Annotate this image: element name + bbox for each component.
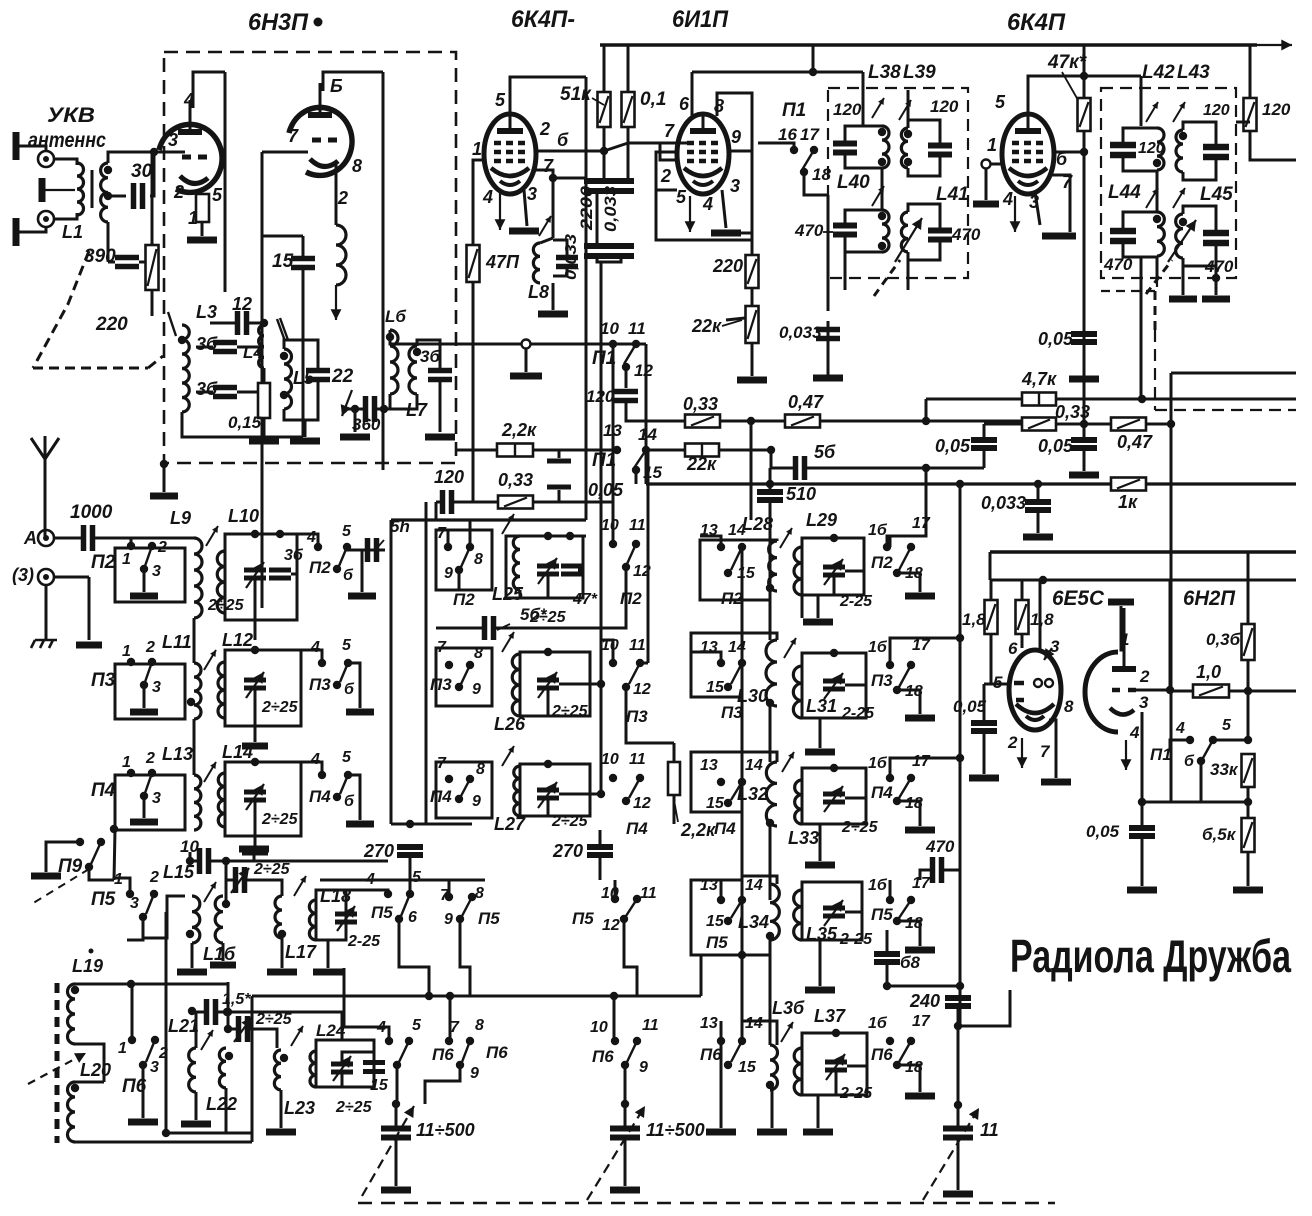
- dot L28 bottom: [766, 584, 774, 592]
- wire cap2-25a right: [245, 880, 282, 896]
- svg-text:L1: L1: [62, 222, 83, 242]
- trimmer arrow L23: [291, 1026, 303, 1046]
- ground L18: [313, 969, 343, 976]
- ground 6K4P2 cathode: [1042, 233, 1076, 240]
- box P4 deck3 unit: [436, 762, 492, 818]
- wire L33 box right: [845, 768, 866, 798]
- wire 6K4P2 pin7 box: [1048, 175, 1070, 232]
- wire L2 tap to cap30: [108, 195, 126, 198]
- svg-text:2: 2: [149, 869, 159, 886]
- top supply bus: [600, 43, 1257, 47]
- svg-text:9: 9: [470, 1065, 479, 1082]
- svg-text:1: 1: [987, 135, 997, 155]
- ground varcap b: [610, 1187, 640, 1194]
- wire earth stem: [45, 585, 48, 640]
- capacitor 22: [306, 371, 330, 380]
- wire cap120P1 down: [626, 401, 646, 421]
- coil L28: [769, 541, 777, 591]
- box P2 deck3 unit: [436, 530, 492, 590]
- box switch P3 deck1: [115, 664, 185, 719]
- wire L34 box bottom to L36: [742, 954, 770, 957]
- svg-text:120: 120: [1262, 100, 1291, 119]
- resistor 0.47 second: [1111, 418, 1146, 431]
- dot L23 top: [280, 1054, 288, 1062]
- arrow 6E5C cathode: [1017, 738, 1028, 768]
- switch P1b contact 15: [632, 466, 640, 474]
- wire L2 top to grid line: [108, 152, 185, 163]
- wire 0.033af stem: [1037, 484, 1040, 501]
- wire L4 bottom down: [263, 368, 266, 412]
- capacitor 120 L38: [833, 144, 857, 153]
- dot L45 bottom edge: [1212, 274, 1220, 282]
- svg-text:17: 17: [800, 125, 820, 144]
- capacitor 0.05 6E5C: [971, 723, 997, 731]
- svg-text:11: 11: [640, 885, 657, 902]
- wire 56 right: [805, 467, 926, 470]
- wire cap30 up to grid line: [150, 152, 154, 196]
- wire AVC vertical x601: [600, 262, 603, 640]
- resistor 220 vertical: [746, 255, 759, 288]
- wire P6d5-14 up: [741, 955, 744, 1041]
- wire L44 bottom down: [1156, 257, 1159, 278]
- wire R1.8a bottom: [990, 634, 993, 684]
- tube 6K4P first: [484, 114, 536, 194]
- wire P6d2-6 down: [396, 1065, 399, 1104]
- capacitor 120 L43: [1203, 147, 1229, 157]
- coil L36: [770, 1045, 778, 1090]
- trimmer arrow L27: [502, 746, 514, 766]
- wire L33 box top: [802, 768, 866, 780]
- svg-text:L41: L41: [936, 184, 969, 205]
- wire P2d4 down to L25: [530, 590, 626, 628]
- switch P2d4 contact 12: [622, 563, 630, 571]
- switch P4d5 arm: [731, 782, 742, 800]
- tube 6K4P second: [1002, 114, 1054, 194]
- wire caps join bottom: [597, 256, 621, 262]
- switch P5d4 contact 10: [611, 895, 619, 903]
- wire P4d2-4 up: [301, 762, 322, 775]
- ground 6E5C: [1041, 779, 1071, 786]
- wire P5d2-6 jog: [399, 919, 429, 996]
- svg-text:4: 4: [306, 529, 316, 546]
- wire L23 bottom: [280, 1090, 283, 1128]
- wire 6K4P1 pin6 right: [536, 150, 604, 153]
- switch P6d4 contact 11: [633, 1037, 641, 1045]
- svg-text:L43: L43: [1177, 62, 1210, 83]
- wire L45 box top: [1183, 206, 1216, 233]
- UKV lower lead: [16, 226, 46, 232]
- switch P2d6 arm: [899, 547, 911, 570]
- ground L33: [805, 862, 835, 869]
- wire 6I1P pin6 up: [691, 72, 694, 116]
- switch P4d2 contact 4: [318, 771, 326, 779]
- svg-text:9: 9: [472, 681, 481, 698]
- wire R0.36 mid: [1247, 660, 1250, 740]
- svg-text:L42: L42: [1142, 62, 1175, 83]
- ground terminal3: [76, 642, 102, 649]
- ground P2 deck1: [130, 593, 158, 600]
- wire 1.5 line to L24: [328, 1012, 342, 1040]
- svg-text:0,33: 0,33: [1055, 402, 1090, 422]
- wire 6N2P grid right: [1136, 689, 1170, 692]
- wire 0.05 6E5C down: [983, 731, 986, 774]
- junction 0.33 third right: [1080, 420, 1088, 428]
- wire L43 box bottom: [1183, 157, 1216, 180]
- svg-text:2÷25: 2÷25: [255, 1011, 293, 1028]
- switch P5d5 contact 15: [724, 917, 732, 925]
- wire L38 box bottom: [845, 153, 882, 168]
- wire 0.05r1 top stem: [983, 424, 986, 440]
- resistor 1.8 a: [985, 600, 998, 634]
- junction 2-25 line corner: [224, 1025, 232, 1033]
- coil L17: [275, 896, 282, 938]
- wire grid B from below: [261, 152, 264, 608]
- svg-text:2: 2: [145, 639, 155, 656]
- svg-text:30: 30: [131, 161, 153, 182]
- wire AVC into P3 region: [601, 640, 613, 663]
- svg-text:б: б: [557, 130, 569, 150]
- ground L23: [266, 1129, 296, 1136]
- resistor 0.1: [622, 92, 635, 127]
- svg-text:1,8: 1,8: [962, 610, 986, 629]
- svg-text:14: 14: [728, 522, 746, 539]
- svg-text:11: 11: [629, 751, 646, 768]
- wire L16 gnd bar: [210, 962, 236, 969]
- wire 22kv down: [751, 343, 754, 376]
- coil L32: [766, 762, 777, 826]
- dot L40 top: [878, 212, 886, 220]
- wire UKV upper to L1: [54, 159, 77, 165]
- switch P2d2 arm: [339, 547, 347, 566]
- capacitor 3b lower: [213, 388, 237, 397]
- box P4 deck5 unit: [691, 752, 742, 812]
- junction left column: [110, 825, 118, 833]
- junction bus x960 c: [956, 982, 964, 990]
- wire L41 box top: [908, 204, 940, 230]
- switch P5d4 arm: [626, 899, 637, 916]
- svg-text:14: 14: [745, 757, 763, 774]
- box P3 deck1: [115, 664, 185, 719]
- ground P3 deck2: [346, 709, 374, 716]
- wire grid entry: [154, 151, 178, 154]
- svg-text:L3: L3: [196, 302, 217, 322]
- svg-text:2÷25: 2÷25: [261, 811, 299, 828]
- wire 6I1P lower box: [656, 190, 752, 240]
- svg-text:51к: 51к: [560, 84, 592, 105]
- wire 0.033 stem: [827, 290, 830, 311]
- svg-text:3: 3: [130, 895, 139, 912]
- trimmer arrow L38: [872, 98, 884, 118]
- wire L38 box top: [845, 126, 882, 143]
- coil L5: [284, 349, 292, 409]
- box L33 unit: [802, 768, 866, 824]
- capacitor 0.05 plate bottom: [547, 484, 571, 489]
- svg-text:L22: L22: [206, 1094, 237, 1114]
- switch P5d3 arm: [462, 897, 472, 916]
- svg-text:6Н2П: 6Н2П: [1183, 587, 1236, 610]
- switch P4d5 contact 13: [717, 778, 725, 786]
- wire L31 bottom: [802, 718, 820, 748]
- wire L29 box top: [802, 538, 864, 547]
- svg-text:L23: L23: [284, 1098, 315, 1118]
- svg-text:антеннс: антеннс: [28, 129, 106, 152]
- svg-text:0,15: 0,15: [228, 413, 262, 432]
- wire L45 cap down: [1215, 266, 1218, 295]
- svg-text:8: 8: [474, 551, 483, 568]
- wire L8 bottom down: [552, 283, 555, 310]
- wire 56star left: [436, 627, 484, 630]
- wire L21 top: [195, 1012, 198, 1048]
- wire L42 box top: [1123, 128, 1157, 145]
- variable capacitor 11-500 c: [943, 1129, 973, 1138]
- capacitor 0.05 right1: [971, 440, 997, 448]
- dashed box L38-L41: [828, 88, 968, 278]
- wire UKV lower to L1: [54, 213, 77, 219]
- wire L26 bottom: [520, 688, 548, 716]
- wire y880 long: [320, 879, 485, 882]
- ground 6K4P1 cathode: [509, 228, 539, 235]
- wire cap390 left: [108, 261, 115, 264]
- switch P5d1 contact 3: [139, 913, 147, 921]
- wire R1.0 left: [1170, 690, 1193, 693]
- svg-text:2: 2: [539, 119, 550, 139]
- switch P2d1 arm: [145, 546, 152, 566]
- switch P1b arm: [634, 450, 646, 468]
- wire R220 bottom: [151, 290, 154, 316]
- wire L44 box top: [1123, 212, 1157, 231]
- ground P4 deck1: [130, 819, 158, 826]
- wire 0.05 6N2P stem: [1141, 802, 1144, 827]
- UKV terminal upper: [38, 151, 54, 167]
- cap trimmer L29: [823, 567, 845, 575]
- switch P4d1 arm: [145, 773, 152, 793]
- trimmer arrow L26: [502, 632, 514, 652]
- switch P5d6 contact 18: [893, 917, 901, 925]
- switch P2d2 contact 6: [333, 565, 341, 573]
- switch P1a contact 12: [622, 363, 630, 371]
- switch P2d3 arm: [461, 547, 470, 567]
- switch P6d5 contact 13: [717, 1037, 725, 1045]
- box L10 unit: [225, 534, 297, 620]
- wire 68 top: [886, 930, 889, 954]
- svg-text:510: 510: [786, 484, 816, 504]
- coil L2: [101, 163, 108, 222]
- switch P2d4 arm: [627, 544, 636, 564]
- box L12 unit: [225, 650, 301, 726]
- svg-text:5: 5: [412, 1017, 422, 1034]
- svg-text:П4: П4: [309, 787, 331, 806]
- arrow L45 variable: [1168, 220, 1196, 262]
- svg-text:3: 3: [730, 176, 740, 196]
- coil anode choke tube B: [336, 225, 346, 285]
- wire 510 top: [769, 468, 772, 492]
- svg-text:11÷500: 11÷500: [416, 1120, 475, 1140]
- wire R1.8b bottom: [1021, 634, 1024, 648]
- switch P1b contact 13: [613, 446, 621, 454]
- svg-text:б: б: [1184, 753, 1195, 770]
- trimmer mark L4: [280, 318, 288, 340]
- switch P6d4 contact 10: [611, 1037, 619, 1045]
- capacitor 470 L41: [928, 231, 952, 240]
- svg-text:б,5к: б,5к: [1202, 825, 1237, 844]
- svg-text:15: 15: [272, 251, 294, 272]
- svg-text:0,05: 0,05: [1086, 822, 1120, 841]
- wire L36 top: [769, 940, 772, 1045]
- wire P2d4-12 down: [625, 567, 628, 590]
- wire L39 box top: [908, 120, 940, 145]
- svg-text:1: 1: [122, 754, 131, 771]
- junction R1.0 right: [1244, 687, 1252, 695]
- switch P5d1 contact 1: [126, 890, 134, 898]
- arrow cap 2-25 P6: [234, 1017, 252, 1042]
- svg-text:120: 120: [930, 97, 959, 116]
- capacitor 2200 lower plate pair: [584, 246, 610, 256]
- svg-text:П5: П5: [371, 903, 393, 922]
- wire L18 bottom: [316, 940, 328, 968]
- coil L44: [1157, 212, 1164, 256]
- capacitor 56: [796, 456, 805, 480]
- svg-text:б8: б8: [900, 953, 921, 972]
- svg-text:П5: П5: [871, 905, 893, 924]
- wire L31 box top: [802, 653, 866, 666]
- wire P5d5-13 col: [720, 890, 723, 900]
- svg-text:П3: П3: [626, 707, 648, 726]
- svg-text:П2: П2: [453, 590, 475, 609]
- ground pickup: [510, 373, 542, 380]
- wire cap360 right: [377, 408, 390, 411]
- big bus y520: [391, 518, 586, 521]
- ground 0.05 6E5C: [969, 775, 999, 782]
- coil L21: [189, 1048, 196, 1092]
- arrow pin3 6E5C: [1044, 648, 1054, 660]
- svg-text:9: 9: [472, 793, 481, 810]
- switch P1 contact 17: [810, 146, 818, 154]
- switch P2d4 contact 11: [632, 540, 640, 548]
- trimmer arrow L21: [201, 1030, 213, 1050]
- svg-text:П2: П2: [309, 558, 331, 577]
- box L18 unit: [316, 890, 346, 940]
- svg-text:L21: L21: [168, 1016, 199, 1036]
- trimmer arrow L10: [206, 526, 218, 546]
- wire cap15 stem up: [302, 236, 305, 258]
- cap lower plate L12: [242, 743, 268, 750]
- svg-text:13: 13: [700, 757, 718, 774]
- switch P3d3 contact 8: [466, 661, 474, 669]
- ground 6I1P cathode: [711, 230, 741, 237]
- capacitor 1000: [84, 525, 93, 551]
- svg-text:П3: П3: [309, 675, 331, 694]
- wire L7 bottom: [390, 394, 417, 409]
- long gramophone line: [410, 343, 646, 346]
- svg-text:5: 5: [1222, 717, 1232, 734]
- osc matrix vertical 2: [425, 502, 428, 824]
- wire left end of IF bus: [645, 344, 648, 484]
- wire cap10 left: [190, 860, 199, 863]
- wire R1.8a top: [990, 580, 993, 600]
- dot L25 top2: [566, 532, 574, 540]
- capacitor 470 L45: [1203, 233, 1229, 243]
- wire P3d2-5 gnd: [348, 663, 360, 708]
- switch P2d6 contact 16: [883, 543, 891, 551]
- box L25 unit: [506, 536, 583, 598]
- wire L12 box bottom: [225, 688, 255, 726]
- coil L27: [514, 766, 520, 816]
- svg-text:0,05: 0,05: [1038, 329, 1074, 349]
- svg-text:4: 4: [702, 194, 713, 214]
- svg-text:L45: L45: [1200, 184, 1233, 205]
- switch P5d1 arm: [146, 894, 154, 914]
- wire L17 gnd: [281, 938, 284, 968]
- dot L38 bottom: [878, 158, 886, 166]
- capacitor 10: [200, 848, 209, 874]
- wire 51k down: [603, 127, 606, 182]
- svg-text:L40: L40: [837, 172, 870, 193]
- wire bus to P6 contacts2: [613, 996, 616, 1041]
- capacitor 68: [874, 954, 900, 962]
- wire x742 column P decks c: [741, 782, 744, 900]
- pointer 47k: [1062, 72, 1078, 100]
- svg-text:4: 4: [482, 187, 493, 207]
- svg-text:0,33: 0,33: [683, 394, 718, 414]
- svg-text:П1: П1: [1150, 745, 1172, 764]
- wire L41 column down: [907, 252, 910, 290]
- wire L6 top to line: [390, 330, 472, 344]
- svg-text:3: 3: [152, 563, 161, 580]
- wire 6I1P pin1 left line: [656, 152, 677, 190]
- svg-text:2÷25: 2÷25: [253, 861, 291, 878]
- switch P5d4 contact 12: [620, 915, 628, 923]
- svg-text:L31: L31: [806, 696, 837, 716]
- svg-text:120: 120: [1203, 102, 1230, 119]
- wire L22 bottom to y1133: [226, 1132, 252, 1135]
- dashed wire y410: [1155, 409, 1296, 411]
- svg-text:7: 7: [450, 1019, 460, 1036]
- trimmer arrow L8: [539, 216, 551, 236]
- arrow 6K4P1 cathode pin4: [495, 192, 506, 230]
- switch P4d2 contact 5: [344, 771, 352, 779]
- coil L15: [192, 896, 200, 943]
- capacitor 0.033 lower plate pair: [608, 246, 634, 256]
- svg-text:П3: П3: [430, 675, 452, 694]
- svg-text:П4: П4: [430, 787, 452, 806]
- box P3 deck5 unit: [691, 633, 742, 697]
- wire 1171 corner: [1170, 373, 1173, 802]
- wire L27 right link: [590, 793, 601, 796]
- coil L8: [533, 243, 540, 283]
- svg-text:11: 11: [628, 319, 646, 338]
- cap lower plate L14: [242, 849, 268, 856]
- wire bus left end up: [343, 968, 346, 996]
- tube 6N3P triode B: [289, 83, 352, 175]
- svg-text:П3: П3: [91, 670, 116, 691]
- coil L1: [77, 163, 84, 215]
- coil L20: [68, 1082, 75, 1142]
- switch P4d2 contact 6: [333, 793, 341, 801]
- svg-text:15: 15: [706, 913, 725, 930]
- wire L37 gnd: [817, 1095, 820, 1128]
- svg-text:7: 7: [288, 126, 299, 146]
- wire 47P down: [472, 282, 475, 502]
- wire P2d6-16 up: [887, 468, 926, 547]
- coil L45: [1176, 214, 1183, 258]
- switch P9 contact c: [85, 863, 93, 871]
- capacitor 270 right: [587, 847, 613, 855]
- dot L45 top: [1179, 218, 1187, 226]
- switch P3d1 arm: [145, 662, 152, 682]
- junction P1c-5: [1244, 736, 1252, 744]
- ground 6N3P box stub: [150, 493, 178, 500]
- capacitor 390: [115, 258, 139, 267]
